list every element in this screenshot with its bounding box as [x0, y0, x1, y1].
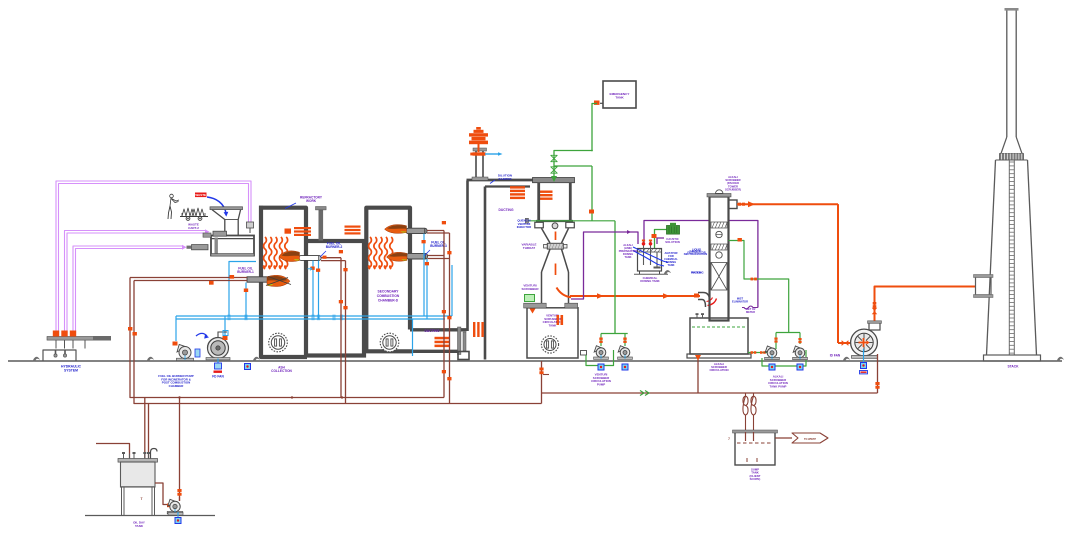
- svg-text:INJECTOR: INJECTOR: [517, 225, 532, 229]
- svg-text:DUCTING: DUCTING: [424, 329, 439, 333]
- svg-text:CIRCULATION: CIRCULATION: [709, 368, 728, 372]
- svg-text:SCRUBBER): SCRUBBER): [725, 187, 741, 191]
- svg-text:TO WWTP: TO WWTP: [804, 438, 816, 441]
- svg-text:TANK: TANK: [624, 255, 631, 259]
- svg-text:SOLUTION: SOLUTION: [665, 240, 679, 244]
- svg-text:WASTE: WASTE: [195, 193, 206, 197]
- svg-text:TANK: TANK: [135, 524, 144, 528]
- svg-text:SCRUBBER: SCRUBBER: [521, 287, 539, 291]
- svg-text:COMBUSTION: COMBUSTION: [377, 294, 400, 298]
- svg-text:ELIMINATOR: ELIMINATOR: [732, 300, 748, 304]
- svg-text:BURNER-1: BURNER-1: [237, 270, 254, 274]
- svg-text:SECONDARY: SECONDARY: [378, 290, 400, 294]
- svg-text:SYSTEM: SYSTEM: [64, 368, 78, 372]
- svg-text:TANK PUMP: TANK PUMP: [770, 384, 787, 388]
- svg-text:DOSING TANK: DOSING TANK: [640, 279, 659, 283]
- svg-text:DAMPER: DAMPER: [498, 177, 512, 181]
- svg-text:TANK: TANK: [615, 96, 624, 100]
- svg-text:COLLECTION: COLLECTION: [271, 369, 292, 373]
- svg-text:CHAMBER: CHAMBER: [169, 384, 185, 388]
- svg-text:WORK: WORK: [306, 199, 317, 203]
- svg-text:THROAT: THROAT: [523, 246, 535, 250]
- svg-text:ID FAN: ID FAN: [830, 354, 841, 358]
- svg-text:PACKING: PACKING: [691, 271, 703, 275]
- svg-text:CART-2: CART-2: [188, 226, 199, 230]
- svg-text:SCOPE): SCOPE): [750, 477, 761, 481]
- svg-text:METER: METER: [746, 310, 755, 314]
- svg-text:FD FAN: FD FAN: [212, 375, 224, 379]
- svg-text:TANK: TANK: [549, 323, 558, 327]
- svg-text:TANK: TANK: [667, 263, 674, 267]
- svg-text:STACK: STACK: [1007, 365, 1019, 369]
- svg-text:CHAMBER-D: CHAMBER-D: [378, 298, 399, 302]
- svg-text:DUCTING: DUCTING: [498, 208, 513, 212]
- svg-text:BURNER-2: BURNER-2: [326, 245, 343, 249]
- svg-text:7: 7: [728, 437, 730, 441]
- svg-text:PUMP: PUMP: [597, 382, 605, 386]
- svg-text:DISTRIBUTOR: DISTRIBUTOR: [687, 251, 705, 255]
